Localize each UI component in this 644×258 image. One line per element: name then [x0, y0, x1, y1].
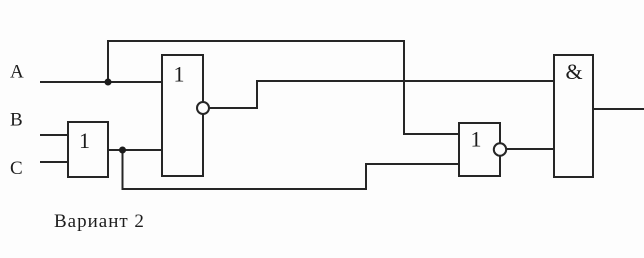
svg-text:A: A	[10, 62, 24, 83]
wire feedback from D1 output node to D3 lower input	[123, 150, 460, 189]
wire circuit output	[594, 108, 644, 110]
svg-text:C: C	[10, 158, 23, 179]
NOR gate D3 inversion bubble	[494, 143, 506, 155]
OR gate D1 body	[68, 122, 108, 177]
NOR gate D2 body	[162, 55, 203, 176]
AND gate D4 body	[554, 55, 593, 177]
NOR gate D2 inversion bubble	[197, 102, 209, 114]
svg-text:&: &	[565, 59, 582, 84]
node A junction dot	[105, 79, 112, 86]
wire input C	[40, 161, 68, 163]
wire input A	[40, 81, 162, 83]
svg-text:1: 1	[79, 128, 90, 153]
wire D3 output to D4 lower input	[506, 148, 554, 150]
svg-text:1: 1	[471, 127, 482, 152]
svg-text:1: 1	[174, 62, 185, 87]
svg-text:Вариант 2: Вариант 2	[54, 211, 145, 232]
svg-text:B: B	[10, 110, 23, 131]
wire D1 output to D2 input	[108, 149, 162, 151]
wire top branch from node A to gate D3 input	[108, 41, 459, 134]
wire input B	[40, 134, 68, 136]
NOR gate D3 body	[459, 123, 500, 176]
wire D2 output to D4 upper input	[209, 81, 554, 108]
node D1-output junction dot	[119, 147, 126, 154]
